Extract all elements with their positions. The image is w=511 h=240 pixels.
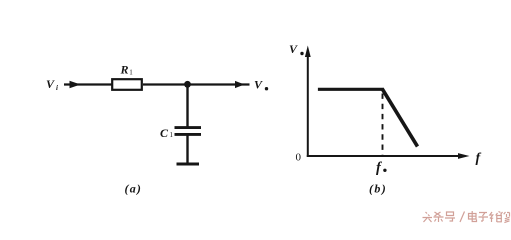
wire node to output arrow — [188, 83, 250, 85]
dashed line at fo — [382, 94, 384, 156]
svg-text:V: V — [289, 42, 298, 56]
wire capacitor to ground — [186, 135, 188, 165]
wire resistor to node — [143, 83, 190, 85]
label Vo y-axis — [289, 42, 304, 56]
svg-text:V: V — [254, 78, 263, 92]
ground — [177, 163, 200, 166]
resistor R1 — [112, 79, 142, 90]
label fo — [376, 160, 387, 176]
x-axis — [307, 155, 461, 157]
svg-text:R: R — [120, 63, 129, 77]
svg-text:C: C — [160, 126, 169, 140]
arrow input — [70, 81, 81, 89]
label R1 — [120, 63, 134, 77]
svg-text:i: i — [56, 84, 58, 92]
label Vo — [254, 78, 268, 92]
y-axis arrowhead — [305, 46, 311, 58]
response curve flat segment — [318, 88, 383, 91]
y-axis — [307, 54, 309, 157]
svg-text:(b): (b) — [369, 182, 387, 196]
x-axis arrowhead — [458, 153, 470, 159]
svg-text:1: 1 — [129, 69, 133, 77]
svg-text:V: V — [46, 77, 55, 91]
response curve slope segment — [382, 89, 418, 147]
wire node down to capacitor — [186, 84, 188, 128]
svg-text:(a): (a) — [125, 182, 143, 196]
svg-text:f: f — [376, 160, 383, 176]
svg-text:1: 1 — [170, 131, 174, 139]
node junction — [184, 81, 191, 88]
svg-text:f: f — [476, 151, 482, 166]
label C1 — [160, 126, 174, 140]
watermark 头条号 / 电子维修 — [423, 211, 510, 223]
svg-text:0: 0 — [296, 152, 302, 164]
arrow output — [235, 81, 245, 88]
capacitor C1 — [175, 128, 202, 135]
label Vi — [46, 77, 58, 92]
wire input — [64, 83, 112, 85]
